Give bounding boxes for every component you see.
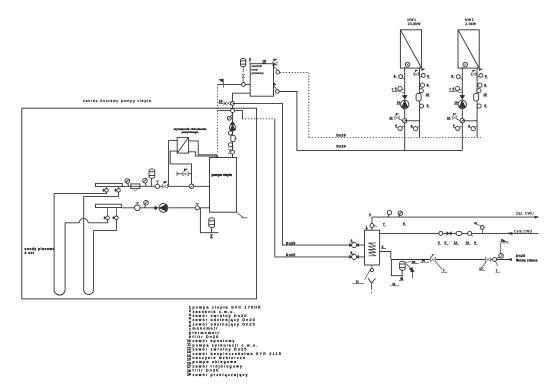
bypass stub with motor valve <box>176 171 178 176</box>
svg-text:2,0kW: 2,0kW <box>465 22 476 26</box>
valve under supply header a <box>106 187 108 189</box>
manometer 8 on cold line <box>496 257 499 258</box>
buffer lower right port <box>274 86 278 90</box>
svg-text:grzewczej: grzewczej <box>251 71 263 75</box>
wire control line to dhw <box>218 111 243 119</box>
valve 14 on cold line <box>430 257 433 261</box>
wire exchanger right top <box>189 141 217 158</box>
sensor flag at dashed corner <box>222 80 224 87</box>
borehole probe U2 <box>83 196 85 289</box>
svg-text:zasobnik: zasobnik <box>251 64 262 68</box>
filter 10 NW1 <box>416 93 421 101</box>
svg-text:10: 10 <box>483 92 487 96</box>
motor valve top right NW1 <box>413 73 420 75</box>
svg-text:Dn25: Dn25 <box>516 254 525 258</box>
svg-text:11: 11 <box>392 282 396 286</box>
svg-text:Dn20: Dn20 <box>336 134 346 138</box>
wire dhw line lower dashed part <box>242 118 274 120</box>
scope-of-delivery boundary box <box>22 108 257 299</box>
wire dhw line lower <box>275 119 365 257</box>
svg-text:11: 11 <box>356 280 360 284</box>
three way valve 17 NW1 <box>403 119 407 123</box>
wire zas cwu line <box>372 216 537 218</box>
svg-text:Dn20: Dn20 <box>336 145 346 149</box>
valve 6 right NW1 <box>419 89 423 93</box>
expansion vessel 13 <box>242 67 244 73</box>
buffer upper right port <box>274 66 278 70</box>
check valve 3 on return <box>154 206 157 209</box>
valve 6 left NW1 <box>398 86 402 90</box>
valve 5 on dhw lower <box>349 255 351 258</box>
sensor flag top right NW1 <box>421 69 423 71</box>
svg-text:zakres dostawy pompy ciepła: zakres dostawy pompy ciepła <box>83 99 152 103</box>
junction node on supply line <box>189 184 193 188</box>
valve 5 on dhw upper <box>349 243 351 246</box>
svg-text:pasywnego: pasywnego <box>182 130 199 134</box>
wire dhw riser <box>371 217 373 230</box>
svg-text:2: 2 <box>382 245 384 249</box>
svg-text:Woda zimna: Woda zimna <box>516 259 538 263</box>
valve under expansion vessel 13 <box>242 78 244 83</box>
svg-text:10: 10 <box>426 92 430 96</box>
pump 16 NW1 <box>401 100 409 108</box>
wire dashed supply to units <box>280 72 309 137</box>
valve 8 lower right NW1 <box>419 104 423 108</box>
wire probe U2 return <box>94 220 117 231</box>
svg-text:wody: wody <box>251 68 258 72</box>
manometer 6 on supply 2 <box>145 181 146 186</box>
vent at dhw riser <box>369 214 371 217</box>
pump 10 on cyrk <box>468 231 472 235</box>
valve 6 right NW2 <box>477 89 481 93</box>
valve 6 left NW2 <box>456 86 460 90</box>
valve 6 below left NW1 <box>402 126 405 127</box>
heat pump unit box <box>210 158 237 213</box>
junction node b on riser <box>231 109 235 113</box>
junction on cold line <box>493 258 497 262</box>
reducer on cyrk <box>509 232 511 234</box>
filter 8 <box>131 184 140 189</box>
supply header manifold <box>96 183 123 186</box>
svg-text:17: 17 <box>389 116 393 120</box>
svg-text:Dn25: Dn25 <box>286 253 296 257</box>
wire probe U2 supply <box>84 192 119 196</box>
motor valve 19 on supply <box>163 184 166 188</box>
manometer on riser <box>231 114 233 117</box>
wire exchanger left bottom <box>170 151 191 186</box>
wire cyrk cwu line <box>380 232 539 234</box>
valve 5 with stem on return <box>136 203 138 205</box>
thermometer 7 on zas <box>388 213 390 217</box>
valve pair at riser bottom <box>228 149 231 151</box>
filter 12 on cyrk <box>456 231 462 235</box>
valve 8 lower right NW2 <box>477 104 481 108</box>
wire exchanger right bottom <box>189 152 218 158</box>
wire right riser NW2 <box>476 67 478 137</box>
svg-text:13: 13 <box>479 266 483 270</box>
heat exchanger W1 <box>177 137 188 153</box>
label 15 14 leaders <box>405 261 413 263</box>
wire solid return from units <box>279 92 462 151</box>
wire brine return line <box>121 207 209 209</box>
filter 10 NW2 <box>474 93 479 101</box>
safety valve 12 <box>409 267 412 271</box>
valve on buffer top right <box>273 62 275 66</box>
valve on riser <box>228 131 232 135</box>
valve 13 on cold line <box>485 257 488 261</box>
valve under return header a <box>107 208 109 217</box>
motor valve top right NW2 <box>471 73 478 75</box>
manometer 6 on supply <box>127 181 128 186</box>
valve 6 lower right NW2 <box>475 126 478 127</box>
coil in dhw tank <box>368 243 376 256</box>
wire left riser NW2 <box>461 67 463 151</box>
expansion vessel on supply <box>151 179 153 187</box>
drain stub on cyrk <box>481 229 483 233</box>
valve 8 right NW1 <box>420 83 422 86</box>
dashed control line buffer to heat pump <box>217 84 219 153</box>
filter on riser <box>231 135 235 141</box>
thermometer 7 NW2 <box>449 91 454 93</box>
vent on buffer top <box>249 59 251 64</box>
drain valve 9 NW1 <box>402 77 405 79</box>
check valve 3 NW1 <box>402 96 407 99</box>
svg-text:18: 18 <box>262 60 266 64</box>
svg-text:Zas. CWU: Zas. CWU <box>516 212 534 216</box>
circulation pump on return <box>159 204 168 213</box>
wire buffer left upper <box>218 83 251 85</box>
pump 16 NW2 <box>458 100 466 108</box>
wire riser heat pump to buffer <box>233 93 251 157</box>
expansion vessel under heat pump <box>200 208 218 233</box>
dhw tank drain <box>371 265 373 269</box>
check valve 3 NW2 <box>460 96 465 99</box>
borehole probe U1 <box>53 194 55 290</box>
wire left riser NW1 <box>404 67 406 151</box>
wire right riser NW1 <box>419 67 421 137</box>
valve 6 below left NW2 <box>459 126 462 127</box>
svg-text:4 szt: 4 szt <box>25 251 35 255</box>
svg-text:18: 18 <box>219 100 223 104</box>
svg-text:10: 10 <box>466 241 470 245</box>
wire dhw line upper <box>233 103 365 245</box>
drain valve 9 NW2 <box>460 77 463 79</box>
return header manifold <box>96 204 122 207</box>
thermometer 7 NW1 <box>392 91 397 93</box>
check valve on riser <box>230 121 235 125</box>
wire brine supply line <box>122 185 209 187</box>
svg-text:13: 13 <box>412 260 416 264</box>
svg-text:12: 12 <box>454 241 458 245</box>
wire bypass NW1 <box>405 120 420 122</box>
valve with stem on supply <box>156 181 158 184</box>
svg-text:23,6kW: 23,6kW <box>408 22 422 26</box>
svg-text:17: 17 <box>447 116 451 120</box>
wire probe U1 return <box>88 220 107 223</box>
drain funnel <box>368 278 376 283</box>
valve 6 lower right NW1 <box>417 126 420 127</box>
svg-text:16: 16 <box>454 101 458 105</box>
wire buffer supply from riser column <box>232 92 234 94</box>
valve on dhw riser <box>370 224 374 228</box>
svg-text:Dn25: Dn25 <box>286 241 296 245</box>
junction node a on riser <box>231 102 235 106</box>
inlet arrow dhw tank <box>366 225 368 229</box>
manometer 6 on return <box>145 203 146 208</box>
wire probe U1 supply <box>54 192 106 193</box>
wire exchanger left top <box>169 141 178 187</box>
leader line 1 at heat pump <box>237 213 243 218</box>
manometer 6 on zas <box>399 214 401 217</box>
wall unit NW2 box <box>458 30 479 68</box>
fan symbol NW2 <box>463 62 468 67</box>
valve 8 right NW2 <box>477 83 479 86</box>
svg-text:Cyrk.CWU: Cyrk.CWU <box>514 229 533 233</box>
valve 6 on cyrk <box>439 231 443 235</box>
svg-text:zawór przełączający: zawór przełączający <box>193 373 249 377</box>
drain valve 9 right NW2 <box>477 76 480 77</box>
wire fill stub dn20 <box>223 101 225 105</box>
junction node vessel tee <box>242 83 246 87</box>
dhw tank 2 <box>365 230 380 265</box>
expansion vessel 13 dhw <box>400 261 406 270</box>
check valve 5 on cyrk <box>447 232 449 236</box>
svg-text:19: 19 <box>187 373 191 377</box>
sensor flag top right NW2 <box>479 69 481 71</box>
three way valve 17 NW2 <box>460 119 464 123</box>
pump on riser <box>229 124 236 131</box>
drain valve 9 right NW1 <box>420 76 423 77</box>
svg-text:14: 14 <box>422 258 426 262</box>
svg-text:16: 16 <box>397 101 401 105</box>
wire cold inlet elbow <box>380 252 391 260</box>
wire woda zimna line <box>391 259 510 261</box>
safety group branch <box>391 260 402 276</box>
valve 18 on fill stub <box>226 102 228 106</box>
valve with stem near unit <box>196 204 198 206</box>
wall unit NW1 box <box>400 30 421 68</box>
fan symbol NW1 <box>405 62 410 67</box>
valve under return header b <box>115 208 117 217</box>
valve under supply header b <box>118 187 120 189</box>
wire bypass NW2 <box>462 120 477 122</box>
buffer tank box <box>250 64 273 96</box>
svg-text:pompa ciepła: pompa ciepła <box>212 173 233 177</box>
valve on riser 2 <box>228 143 232 147</box>
